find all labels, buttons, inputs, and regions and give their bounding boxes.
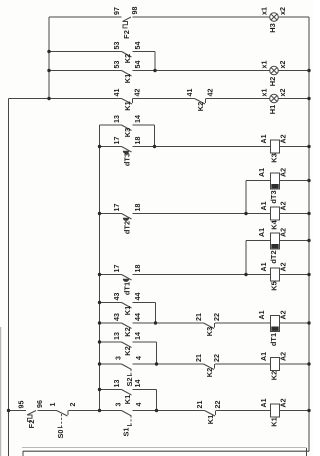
wire rung9 stub — [246, 240, 271, 242]
svg-text:18: 18 — [134, 265, 142, 273]
svg-text:43: 43 — [113, 293, 121, 301]
svg-text:13: 13 — [113, 115, 121, 123]
svg-text:3: 3 — [115, 402, 123, 406]
wire rung12 left — [100, 322, 122, 324]
node rung15 joins rung16 — [155, 409, 158, 412]
svg-text:x2: x2 — [279, 89, 287, 97]
svg-text:A2: A2 — [280, 352, 288, 361]
svg-text:43: 43 — [113, 313, 121, 321]
svg-text:K3: K3 — [205, 327, 214, 336]
node bus-rung3 — [47, 69, 50, 72]
wire rung16 seg4 — [133, 410, 205, 412]
wire bus A (S0 node) — [99, 125, 101, 411]
contact K2 43-44 — [113, 313, 142, 337]
svg-text:98: 98 — [131, 7, 139, 15]
contact K1 21-22 — [196, 401, 222, 425]
node rung10-rail — [307, 273, 310, 276]
svg-text:97: 97 — [113, 7, 121, 15]
contact F2 95-96 overload NC — [18, 400, 45, 428]
svg-text:dT3: dT3 — [123, 153, 132, 166]
svg-text:41: 41 — [113, 89, 121, 97]
wire rung1 right — [278, 16, 309, 18]
svg-text:K2: K2 — [196, 102, 205, 111]
svg-text:17: 17 — [113, 204, 121, 212]
svg-text:96: 96 — [36, 400, 44, 408]
svg-text:F2: F2 — [27, 420, 36, 429]
coil K3 — [260, 134, 288, 162]
svg-text:17: 17 — [113, 265, 121, 273]
frame title block top edge — [23, 450, 309, 452]
svg-text:A2: A2 — [280, 228, 288, 237]
svg-text:A1: A1 — [258, 168, 266, 177]
svg-text:A1: A1 — [258, 310, 266, 319]
svg-text:A1: A1 — [260, 201, 268, 210]
svg-text:K2: K2 — [123, 327, 132, 336]
wire rung15 left — [100, 389, 122, 391]
coil K4 — [260, 201, 288, 229]
coil dT2 timer coil — [258, 228, 288, 264]
svg-text:4: 4 — [135, 356, 143, 360]
wire rung7 right — [280, 180, 310, 182]
node rung9 joins rung10 — [244, 273, 247, 276]
svg-text:A1: A1 — [260, 134, 268, 143]
contact F2 97-98 overload NO — [113, 7, 139, 39]
svg-text:13: 13 — [113, 380, 121, 388]
coil K5 — [260, 262, 288, 290]
lamp H2 — [261, 61, 288, 87]
svg-text:A1: A1 — [260, 352, 268, 361]
wire rung14 mid2 — [215, 363, 271, 365]
svg-text:21: 21 — [195, 354, 203, 362]
wire rung4 mid2 — [206, 98, 270, 100]
svg-text:K2: K2 — [123, 54, 132, 63]
node busA-rung15 — [98, 388, 101, 391]
wire left supply rail — [8, 99, 10, 456]
pushbutton S2 3-4 start — [115, 356, 144, 387]
lamp H1 — [261, 89, 288, 115]
wire rung11 left — [100, 302, 122, 304]
node rung8-rail — [307, 212, 310, 215]
node rung7 joins rung8 — [244, 212, 247, 215]
node busA-rung12 — [98, 321, 101, 324]
wire rung4 left — [9, 98, 122, 100]
svg-text:K1: K1 — [270, 417, 279, 426]
wire rung1 mid — [133, 16, 270, 18]
svg-text:95: 95 — [18, 401, 26, 409]
svg-text:53: 53 — [113, 42, 121, 50]
svg-text:A1: A1 — [260, 398, 268, 407]
svg-text:21: 21 — [195, 313, 203, 321]
node rung11 joins rung12 — [154, 321, 157, 324]
wire rung3 right — [278, 70, 309, 72]
wire rung12 mid2 — [215, 322, 271, 324]
contact K1 13-14 — [113, 380, 142, 405]
wire rung8 left — [100, 213, 122, 215]
svg-text:K2: K2 — [270, 371, 279, 380]
svg-text:K1: K1 — [123, 74, 132, 83]
svg-text:A2: A2 — [280, 398, 288, 407]
svg-text:44: 44 — [134, 293, 142, 301]
svg-text:dT1: dT1 — [269, 333, 278, 346]
contact K3 13-14 — [113, 115, 142, 137]
wire rung8 right — [280, 213, 310, 215]
node busA-rung14 — [98, 362, 101, 365]
svg-text:dT2: dT2 — [123, 221, 132, 234]
svg-text:1: 1 — [49, 402, 57, 406]
wire rung1 left — [49, 16, 122, 18]
svg-text:18: 18 — [134, 137, 142, 145]
wire rung14 left — [100, 363, 122, 365]
svg-text:13: 13 — [113, 332, 121, 340]
wire rung16 seg1 — [9, 410, 27, 412]
wire rung14 mid1 — [133, 363, 204, 365]
contact K2 13-14 — [113, 332, 142, 356]
wire branch drop rung13-rung14 — [156, 342, 158, 364]
svg-text:A2: A2 — [280, 134, 288, 143]
svg-text:21: 21 — [196, 401, 204, 409]
svg-text:4: 4 — [135, 402, 143, 406]
contact dT1 17-18 timer — [113, 265, 142, 296]
svg-text:dT2: dT2 — [269, 250, 278, 263]
coil dT3 timer coil — [258, 168, 288, 204]
svg-text:A2: A2 — [280, 262, 288, 271]
svg-text:3: 3 — [115, 356, 123, 360]
wire rung10 left — [100, 274, 122, 276]
wire rung8 mid — [133, 213, 271, 215]
scan artifact left edge — [0, 327, 2, 456]
node rung7-rail — [307, 179, 310, 182]
frame faint upper edge — [22, 447, 307, 449]
svg-text:x2: x2 — [279, 61, 287, 69]
svg-text:A2: A2 — [280, 201, 288, 210]
wire rung6 mid — [133, 146, 271, 148]
coil dT1 timer coil — [258, 310, 288, 346]
svg-text:K2: K2 — [205, 368, 214, 377]
contact dT2 17-18 timer — [113, 204, 142, 235]
wire rung2 left — [49, 51, 122, 53]
node rung5 joins rung6 — [153, 145, 156, 148]
svg-text:A1: A1 — [260, 262, 268, 271]
contact K1 41-42 — [113, 89, 142, 111]
svg-text:x1: x1 — [261, 61, 269, 69]
node rung9-rail — [307, 239, 310, 242]
svg-text:K4: K4 — [270, 219, 279, 229]
contact dT3 17-18 timer — [113, 137, 142, 167]
node busA-rung13 — [98, 340, 101, 343]
wire rung16 seg2 — [38, 410, 57, 412]
svg-text:14: 14 — [134, 115, 142, 123]
wire branch drop rung11-rung12 — [155, 303, 157, 324]
wire rung7 stub — [246, 180, 271, 182]
coil K2 — [260, 352, 288, 380]
svg-text:F2: F2 — [122, 30, 131, 39]
svg-text:K1: K1 — [206, 415, 215, 424]
wire rung5 right — [133, 124, 155, 126]
contact K2 53-54 — [113, 42, 142, 64]
node rung6-rail — [307, 145, 310, 148]
contact K2 41-42 — [186, 89, 215, 112]
wire rung10 mid — [133, 274, 271, 276]
coil K1 — [260, 398, 288, 426]
svg-text:x1: x1 — [261, 89, 269, 97]
svg-text:54: 54 — [134, 61, 142, 69]
wire branch drop rung5-rung6 — [154, 125, 156, 147]
wire rung3 left — [49, 70, 122, 72]
node bus-rung2 — [47, 50, 50, 53]
svg-text:A1: A1 — [258, 228, 266, 237]
svg-text:44: 44 — [134, 313, 142, 321]
svg-text:K3: K3 — [270, 153, 279, 162]
wire rung6 right — [280, 146, 310, 148]
node busA-rung10 — [98, 273, 101, 276]
svg-text:S2: S2 — [125, 377, 134, 386]
wire rung10 right — [280, 274, 310, 276]
svg-text:14: 14 — [134, 332, 142, 340]
wire rung16 right — [280, 410, 310, 412]
contact K1 43-44 — [113, 293, 142, 316]
wire rung11 right — [133, 302, 156, 304]
node rung3-rail — [307, 69, 310, 72]
svg-text:22: 22 — [213, 354, 221, 362]
svg-text:K1: K1 — [123, 306, 132, 315]
svg-text:K2: K2 — [123, 346, 132, 355]
wire rung5 left — [100, 124, 122, 126]
node busA-rung11 — [98, 301, 101, 304]
node rung16-rail — [307, 409, 310, 412]
svg-text:14: 14 — [134, 380, 142, 388]
node bus-rung4 — [47, 97, 50, 100]
svg-text:K1: K1 — [123, 101, 132, 110]
node rung14-rail — [307, 362, 310, 365]
svg-text:22: 22 — [213, 313, 221, 321]
svg-text:H2: H2 — [268, 77, 277, 86]
svg-text:x1: x1 — [261, 7, 269, 15]
svg-text:dT3: dT3 — [269, 190, 278, 203]
svg-text:K5: K5 — [270, 281, 279, 290]
wire rung3 mid — [133, 70, 270, 72]
svg-text:22: 22 — [214, 401, 222, 409]
wire branch drop rung2-rung3 — [154, 52, 156, 71]
svg-text:42: 42 — [207, 89, 215, 97]
wire rung16 seg3 — [69, 410, 122, 412]
wire feed bus upper — [48, 17, 50, 99]
frame left edge — [22, 451, 24, 456]
pushbutton S1 3-4 start — [115, 402, 144, 436]
node rung13 joins rung14 — [155, 362, 158, 365]
wire rung4 right — [278, 98, 309, 100]
contact K1 53-54 — [113, 61, 142, 84]
node rung4-rail — [307, 97, 310, 100]
wire rung15 right — [133, 389, 157, 391]
svg-text:K3: K3 — [123, 128, 132, 137]
svg-text:K1: K1 — [123, 395, 132, 404]
svg-text:18: 18 — [134, 204, 142, 212]
svg-text:41: 41 — [186, 89, 194, 97]
svg-text:54: 54 — [134, 42, 142, 50]
wire rung14 right — [280, 363, 310, 365]
wire branch drop rung15-rung16 — [156, 390, 158, 411]
svg-text:H1: H1 — [268, 105, 277, 114]
node rail-rung16 — [7, 409, 10, 412]
wire right return rail — [308, 17, 310, 452]
frame right edge — [306, 448, 308, 456]
node busA-rung6 — [98, 145, 101, 148]
svg-text:42: 42 — [134, 89, 142, 97]
wire rung12 right — [280, 322, 310, 324]
svg-text:S0: S0 — [56, 429, 65, 438]
node rung2 joins rung3 — [153, 69, 156, 72]
wire branch drop rung9-rung10 — [245, 241, 247, 275]
wire rung13 right — [133, 341, 157, 343]
lamp H3 — [261, 7, 288, 33]
svg-text:53: 53 — [113, 61, 121, 69]
svg-text:2: 2 — [69, 402, 77, 406]
node busA-rung8 — [98, 212, 101, 215]
pushbutton S0 1-2 stop — [49, 402, 77, 438]
wire rung12 mid1 — [133, 322, 204, 324]
node busA-rung16 — [98, 409, 101, 412]
wire rung4 mid1 — [133, 98, 195, 100]
svg-text:S1: S1 — [122, 427, 131, 436]
wire branch drop rung7-rung8 — [245, 181, 247, 214]
wire rung2 right — [133, 51, 156, 53]
wire rung16 seg5 — [216, 410, 271, 412]
svg-text:A2: A2 — [280, 310, 288, 319]
svg-text:17: 17 — [113, 137, 121, 145]
node rung12-rail — [307, 321, 310, 324]
svg-text:dT1: dT1 — [123, 282, 132, 295]
wire rung6 left — [100, 146, 122, 148]
svg-text:x2: x2 — [279, 7, 287, 15]
wire rung13 left — [100, 341, 122, 343]
svg-text:A2: A2 — [280, 168, 288, 177]
contact K2 21-22 — [195, 354, 221, 377]
wire rung9 right — [280, 240, 310, 242]
contact K3 21-22 — [195, 313, 221, 336]
svg-text:H3: H3 — [268, 23, 277, 32]
